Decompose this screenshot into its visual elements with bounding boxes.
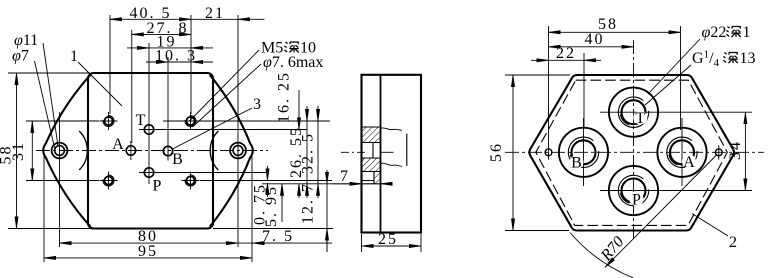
extension line top edge right view (505, 74, 570, 76)
svg-text:3: 3 (253, 96, 261, 113)
boss arc at left hole (79, 131, 87, 170)
boss arc at right hole (210, 131, 218, 170)
svg-text:22: 22 (556, 45, 576, 62)
extension line P level right (667, 190, 752, 192)
extension line top edge left (8, 72, 90, 74)
svg-text:56: 56 (488, 142, 505, 162)
horizontal centerline (36, 150, 268, 152)
cavity inner vertical (372, 143, 374, 159)
leader 2 (692, 214, 728, 237)
leader phi7 (35, 61, 55, 148)
vertical centerline T-P column (148, 118, 150, 184)
svg-text:95: 95 (138, 243, 158, 260)
port P right view (600, 166, 667, 215)
centerline middle view (341, 151, 366, 153)
extension line bolt row bottom left (26, 180, 99, 182)
extension line port T right (158, 129, 307, 131)
svg-text:φ7: φ7 (12, 48, 29, 65)
mounting hole phi11/phi7 right (230, 143, 246, 159)
svg-text:12. 7: 12. 7 (300, 182, 317, 224)
right hole vertical centerline (237, 15, 239, 247)
bolt hole M5 bottom-left (100, 172, 118, 190)
leader 3 (173, 108, 253, 149)
svg-text:34: 34 (727, 140, 744, 160)
extension line bolt row top right (163, 120, 330, 122)
port T crosshair (139, 129, 159, 131)
text P right view (630, 192, 644, 206)
dimension 95 (44, 257, 252, 259)
dimension 7 arrows (332, 183, 392, 185)
dimension 16.25 (arrows outside) (298, 90, 300, 115)
svg-text:φ22: φ22 (702, 24, 727, 41)
dimension 31 (31, 121, 33, 181)
dimension 58 right view (549, 31, 681, 33)
section hatch lower block (362, 158, 381, 172)
section hatch upper block (362, 127, 381, 143)
mounting hole phi11/phi7 left (52, 143, 68, 159)
extension lines 25 (362, 234, 422, 252)
leader M5 (190, 50, 260, 121)
section hatch small right block (374, 172, 381, 184)
vertical centerline right view (633, 40, 635, 240)
port cavity lines (362, 127, 381, 172)
left hole vertical centerline (59, 112, 61, 247)
dimension 32.5 (317, 106, 319, 121)
svg-text:16. 25: 16. 25 (276, 71, 293, 123)
text B right view (570, 155, 584, 169)
extension line port B column (167, 57, 169, 143)
port A (126, 146, 135, 155)
port P (144, 168, 153, 177)
horizontal centerline right view (505, 151, 764, 153)
extension line top bolt column right (190, 15, 192, 114)
dimension 80 (60, 242, 239, 244)
dimension 58 (16, 73, 18, 229)
extension line T level right (667, 111, 752, 113)
R70 arc (570, 233, 634, 278)
extension line port P right (159, 172, 268, 174)
extension line left vertex (43, 153, 45, 262)
bolt hole M5 bottom-right (182, 172, 200, 190)
leader G1/4 (645, 65, 691, 105)
small hole left (545, 149, 552, 156)
svg-text:P: P (632, 192, 641, 209)
extension line 183.8 from middle view (262, 183, 392, 185)
small hole right (715, 149, 722, 156)
dimension 21 (191, 18, 238, 20)
hexagon left wing edges (43, 75, 90, 227)
dimension 40.5 (110, 18, 191, 20)
dimension 7.5 right arrow (253, 242, 292, 244)
extension line bottom edge right view (505, 230, 569, 232)
side view outline (362, 75, 422, 233)
plate pad rounded rectangle (88, 73, 213, 229)
bolt hole M5 top-right (182, 112, 200, 130)
port B crosshair (167, 142, 169, 161)
dimension 22 right view (arrows outside) (549, 59, 585, 61)
leader phi11 (43, 43, 58, 146)
bolt hole M5 top-left (100, 112, 118, 130)
hexagon outline (529, 75, 734, 231)
port B right view (559, 118, 608, 186)
extension line right vertex (251, 153, 253, 262)
hexagon right wing edges (210, 75, 253, 227)
svg-text:13: 13 (740, 50, 756, 67)
extension line bolt row top left (26, 120, 99, 122)
svg-text:1: 1 (70, 48, 78, 65)
svg-text:2: 2 (729, 234, 737, 251)
svg-text:32. 5: 32. 5 (300, 132, 317, 174)
svg-text:T: T (635, 110, 645, 127)
leader 1 (78, 62, 122, 106)
leader phi22 (648, 39, 700, 94)
svg-text:21: 21 (205, 5, 225, 22)
svg-text:B: B (571, 155, 582, 172)
svg-text:A: A (683, 154, 695, 171)
dimension 0.75 arrows (267, 166, 269, 181)
svg-text:B: B (172, 151, 183, 168)
svg-text:25: 25 (378, 231, 398, 248)
extension line port B column (583, 53, 585, 128)
text T right view (633, 111, 647, 125)
svg-text:A: A (112, 136, 124, 153)
extension line bolt row bottom right (200, 180, 332, 182)
svg-text:P: P (153, 177, 162, 194)
svg-text:5. 95: 5. 95 (263, 185, 280, 227)
dimension line 80 extension right for 7.5/12.7 (238, 242, 332, 244)
dashed inner hexagon (536, 80, 728, 225)
svg-text:10. 3: 10. 3 (155, 48, 197, 65)
extension line port A column (131, 30, 133, 143)
text A right view (682, 154, 696, 168)
dimension 12.7 (326, 170, 328, 252)
notch lines (362, 172, 381, 184)
extension line bottom edge right (213, 228, 333, 230)
thread line (381, 151, 394, 153)
port T right view (600, 88, 667, 137)
leader phi7.6max (193, 64, 262, 127)
svg-text:40: 40 (585, 31, 605, 48)
svg-text:φ11: φ11 (14, 32, 38, 49)
port A right view (657, 118, 706, 186)
svg-text:T: T (136, 112, 146, 129)
dimension 26.55 (306, 106, 308, 121)
port A crosshair (130, 141, 132, 160)
pad face line (380, 75, 382, 233)
extension line T column (148, 43, 150, 118)
dimension 56 (512, 75, 514, 231)
svg-text:31: 31 (10, 141, 27, 161)
break wavy line bottom (381, 163, 403, 166)
dimension 5.95 arrow (281, 184, 283, 198)
dimension 27.8 (132, 33, 191, 35)
svg-text:7: 7 (340, 168, 348, 185)
svg-text:7. 5: 7. 5 (262, 228, 294, 245)
dimension 40 right view (549, 46, 634, 48)
dimension 19 (arrows outside) (149, 47, 191, 49)
extension line top bolt column left (109, 15, 111, 114)
dimension 25 (362, 245, 422, 247)
thread depth line (406, 134, 408, 166)
extension line port A column (680, 26, 682, 130)
svg-text:1: 1 (743, 24, 751, 41)
port T (144, 125, 153, 134)
dimension 10.3 (arrows outside) (168, 61, 191, 63)
dimension 34 (744, 112, 746, 190)
leader R70 with arrow (605, 155, 717, 268)
port P crosshair (139, 172, 159, 174)
extension line small hole column (548, 26, 550, 147)
extension line bottom edge left (8, 228, 90, 230)
svg-text:φ7. 6max: φ7. 6max (263, 54, 323, 71)
port B (163, 146, 172, 155)
break wavy line top (381, 128, 403, 130)
